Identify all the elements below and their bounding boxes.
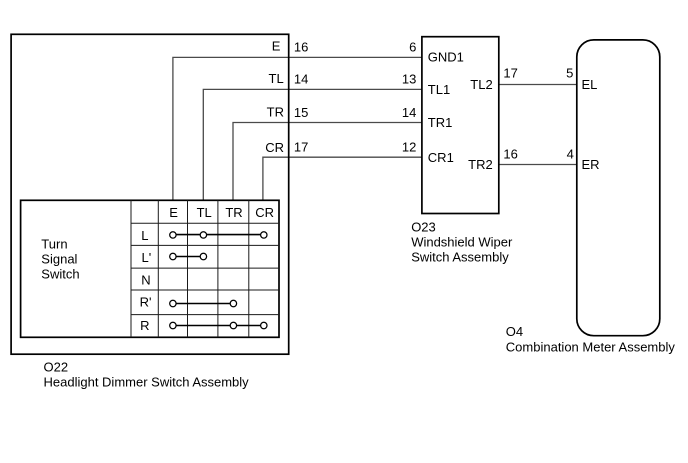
svg-text:E: E xyxy=(272,39,281,54)
svg-text:12: 12 xyxy=(402,140,416,155)
svg-text:TL1: TL1 xyxy=(428,82,450,97)
svg-text:R: R xyxy=(140,318,149,333)
svg-text:TL: TL xyxy=(269,71,284,86)
svg-text:TL: TL xyxy=(197,205,212,220)
svg-text:16: 16 xyxy=(294,39,308,54)
svg-text:CR1: CR1 xyxy=(428,150,454,165)
svg-text:14: 14 xyxy=(294,72,308,87)
svg-text:L: L xyxy=(141,228,148,243)
svg-text:TR1: TR1 xyxy=(428,115,453,130)
svg-text:Combination Meter Assembly: Combination Meter Assembly xyxy=(506,339,676,354)
svg-text:O23: O23 xyxy=(411,219,436,234)
svg-text:Switch: Switch xyxy=(41,266,79,281)
svg-text:Switch Assembly: Switch Assembly xyxy=(411,249,509,264)
svg-text:14: 14 xyxy=(402,105,416,120)
svg-text:4: 4 xyxy=(567,147,574,162)
svg-text:O4: O4 xyxy=(506,324,523,339)
svg-text:13: 13 xyxy=(402,72,416,87)
svg-text:5: 5 xyxy=(566,66,573,81)
svg-text:EL: EL xyxy=(582,77,598,92)
svg-text:CR: CR xyxy=(255,205,274,220)
svg-text:6: 6 xyxy=(409,39,416,54)
svg-text:16: 16 xyxy=(503,147,517,162)
svg-text:TR2: TR2 xyxy=(468,157,493,172)
svg-text:15: 15 xyxy=(294,105,308,120)
svg-text:Signal: Signal xyxy=(41,251,77,266)
svg-text:CR: CR xyxy=(265,140,284,155)
svg-text:TR: TR xyxy=(225,205,242,220)
svg-text:GND1: GND1 xyxy=(428,50,464,65)
svg-text:17: 17 xyxy=(294,140,308,155)
svg-text:N: N xyxy=(141,272,150,287)
svg-text:TR: TR xyxy=(267,104,284,119)
svg-text:Turn: Turn xyxy=(41,236,67,251)
svg-text:TL2: TL2 xyxy=(470,77,492,92)
svg-text:E: E xyxy=(169,205,178,220)
svg-text:L': L' xyxy=(142,250,152,265)
svg-text:ER: ER xyxy=(582,157,600,172)
svg-text:Headlight Dimmer Switch Assemb: Headlight Dimmer Switch Assembly xyxy=(44,375,250,390)
svg-text:O22: O22 xyxy=(44,360,69,375)
svg-text:17: 17 xyxy=(503,66,517,81)
svg-text:Windshield Wiper: Windshield Wiper xyxy=(411,234,513,249)
svg-text:R': R' xyxy=(140,295,152,310)
